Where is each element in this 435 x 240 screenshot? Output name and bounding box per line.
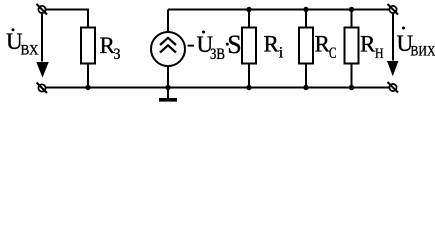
svg-text:З: З (114, 46, 121, 63)
svg-text:Н: Н (375, 46, 384, 62)
svg-text:С: С (329, 45, 337, 62)
svg-text:R: R (264, 32, 280, 57)
svg-text:S: S (227, 30, 241, 59)
svg-text:ВХ: ВХ (21, 43, 39, 59)
svg-text:-: - (187, 31, 195, 56)
svg-text:R: R (360, 32, 376, 57)
svg-text:i: i (279, 45, 284, 62)
svg-text:ВИХ: ВИХ (411, 44, 435, 60)
